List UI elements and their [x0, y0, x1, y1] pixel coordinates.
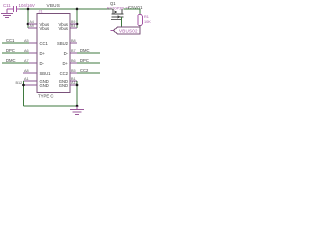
- wire DPC: [2, 52, 29, 54]
- svg-text:DMC: DMC: [6, 58, 16, 63]
- svg-text:SBU2: SBU2: [57, 41, 69, 46]
- svg-text:A5: A5: [24, 39, 29, 43]
- pin A6 D+: [24, 49, 46, 56]
- wire resistor bottom: [139, 26, 141, 31]
- pin B5 CC2: [60, 69, 77, 76]
- svg-text:A7: A7: [24, 59, 29, 63]
- pin B7 D-: [64, 49, 77, 56]
- wire resistor top: [139, 9, 141, 15]
- wire gnd bus bottom: [24, 105, 78, 107]
- svg-text:B7: B7: [71, 49, 76, 53]
- pin A12 GND: [59, 81, 78, 88]
- wire left vbus drop: [27, 9, 29, 28]
- junction VBUS right: [76, 8, 79, 11]
- pin A5 CC1: [24, 39, 49, 46]
- svg-text:10K: 10K: [144, 20, 151, 24]
- pin A4 Vbus: [28, 20, 37, 24]
- svg-text:GND: GND: [59, 83, 68, 88]
- pin A1 GND: [24, 77, 49, 84]
- svg-text:SBU1: SBU1: [40, 71, 52, 76]
- wire DMC right: [77, 52, 100, 54]
- svg-text:D+: D+: [63, 61, 69, 66]
- transistor Q1: [107, 1, 130, 19]
- svg-text:Vbus: Vbus: [40, 26, 50, 31]
- pin A9 Vbus: [28, 24, 37, 28]
- pin B12 GND: [16, 81, 49, 88]
- svg-text:A8: A8: [24, 69, 29, 73]
- wire CC1: [2, 42, 29, 44]
- svg-text:104/16V: 104/16V: [19, 3, 35, 8]
- wire DMC: [2, 62, 29, 64]
- pin B9 Vbus: [70, 20, 77, 24]
- junction left vbus pins: [27, 23, 30, 26]
- svg-text:TYPE C: TYPE C: [38, 93, 54, 98]
- svg-text:J1: J1: [39, 10, 43, 14]
- svg-text:CC1: CC1: [6, 38, 15, 43]
- pin B1 GND: [59, 77, 77, 84]
- junction at C11/VBUS: [27, 8, 30, 11]
- pin B8 SBU2: [57, 39, 77, 46]
- svg-text:B6: B6: [71, 59, 76, 63]
- svg-text:RU30P30L23: RU30P30L23: [107, 6, 130, 10]
- junction left gnd: [22, 84, 25, 87]
- svg-text:CC1: CC1: [40, 41, 49, 46]
- svg-text:VBUS02: VBUS02: [119, 29, 138, 34]
- ground: [70, 106, 84, 115]
- svg-text:D-: D-: [64, 51, 69, 56]
- svg-text:GND: GND: [40, 83, 49, 88]
- junction right vbus pins: [76, 23, 79, 26]
- port VBUS02: [111, 27, 141, 34]
- wire gate: [121, 17, 123, 27]
- svg-text:D-: D-: [40, 61, 45, 66]
- svg-text:DPC: DPC: [80, 58, 89, 63]
- ground: [1, 9, 13, 18]
- svg-text:CC2: CC2: [80, 68, 89, 73]
- connector J1 USB Type-C body: [37, 14, 70, 93]
- junction gnd bottom: [76, 105, 79, 108]
- wire VBUS rail: [20, 8, 113, 10]
- svg-text:VBUS: VBUS: [47, 3, 61, 8]
- capacitor C11: [7, 6, 20, 12]
- svg-text:A6: A6: [24, 49, 29, 53]
- wire right vbus drop: [76, 9, 78, 28]
- wire CC2 right: [77, 72, 100, 74]
- pin A8 SBU1: [23, 69, 51, 76]
- svg-text:Vbus: Vbus: [58, 26, 68, 31]
- resistor R1: [138, 15, 143, 26]
- pin B4 Vbus: [70, 24, 77, 28]
- svg-text:A1: A1: [24, 77, 29, 81]
- svg-text:C11: C11: [3, 3, 11, 8]
- wire DPC right: [77, 62, 100, 64]
- wire drain to resistor: [124, 8, 141, 10]
- svg-text:A9: A9: [30, 24, 34, 28]
- junction right gnd: [76, 84, 79, 87]
- svg-text:B8: B8: [71, 39, 76, 43]
- pin A7 D-: [24, 59, 45, 66]
- wire left gnd drop: [23, 81, 25, 106]
- svg-text:D+: D+: [40, 51, 46, 56]
- svg-text:DMC: DMC: [80, 48, 90, 53]
- svg-text:R1: R1: [144, 15, 149, 19]
- pin B6 D+: [63, 59, 77, 66]
- svg-text:B4: B4: [71, 24, 75, 28]
- svg-text:CC2: CC2: [60, 71, 69, 76]
- svg-text:B5: B5: [71, 69, 76, 73]
- wire right gnd drop: [76, 81, 78, 106]
- svg-text:B12: B12: [16, 81, 23, 85]
- svg-text:DPC: DPC: [6, 48, 15, 53]
